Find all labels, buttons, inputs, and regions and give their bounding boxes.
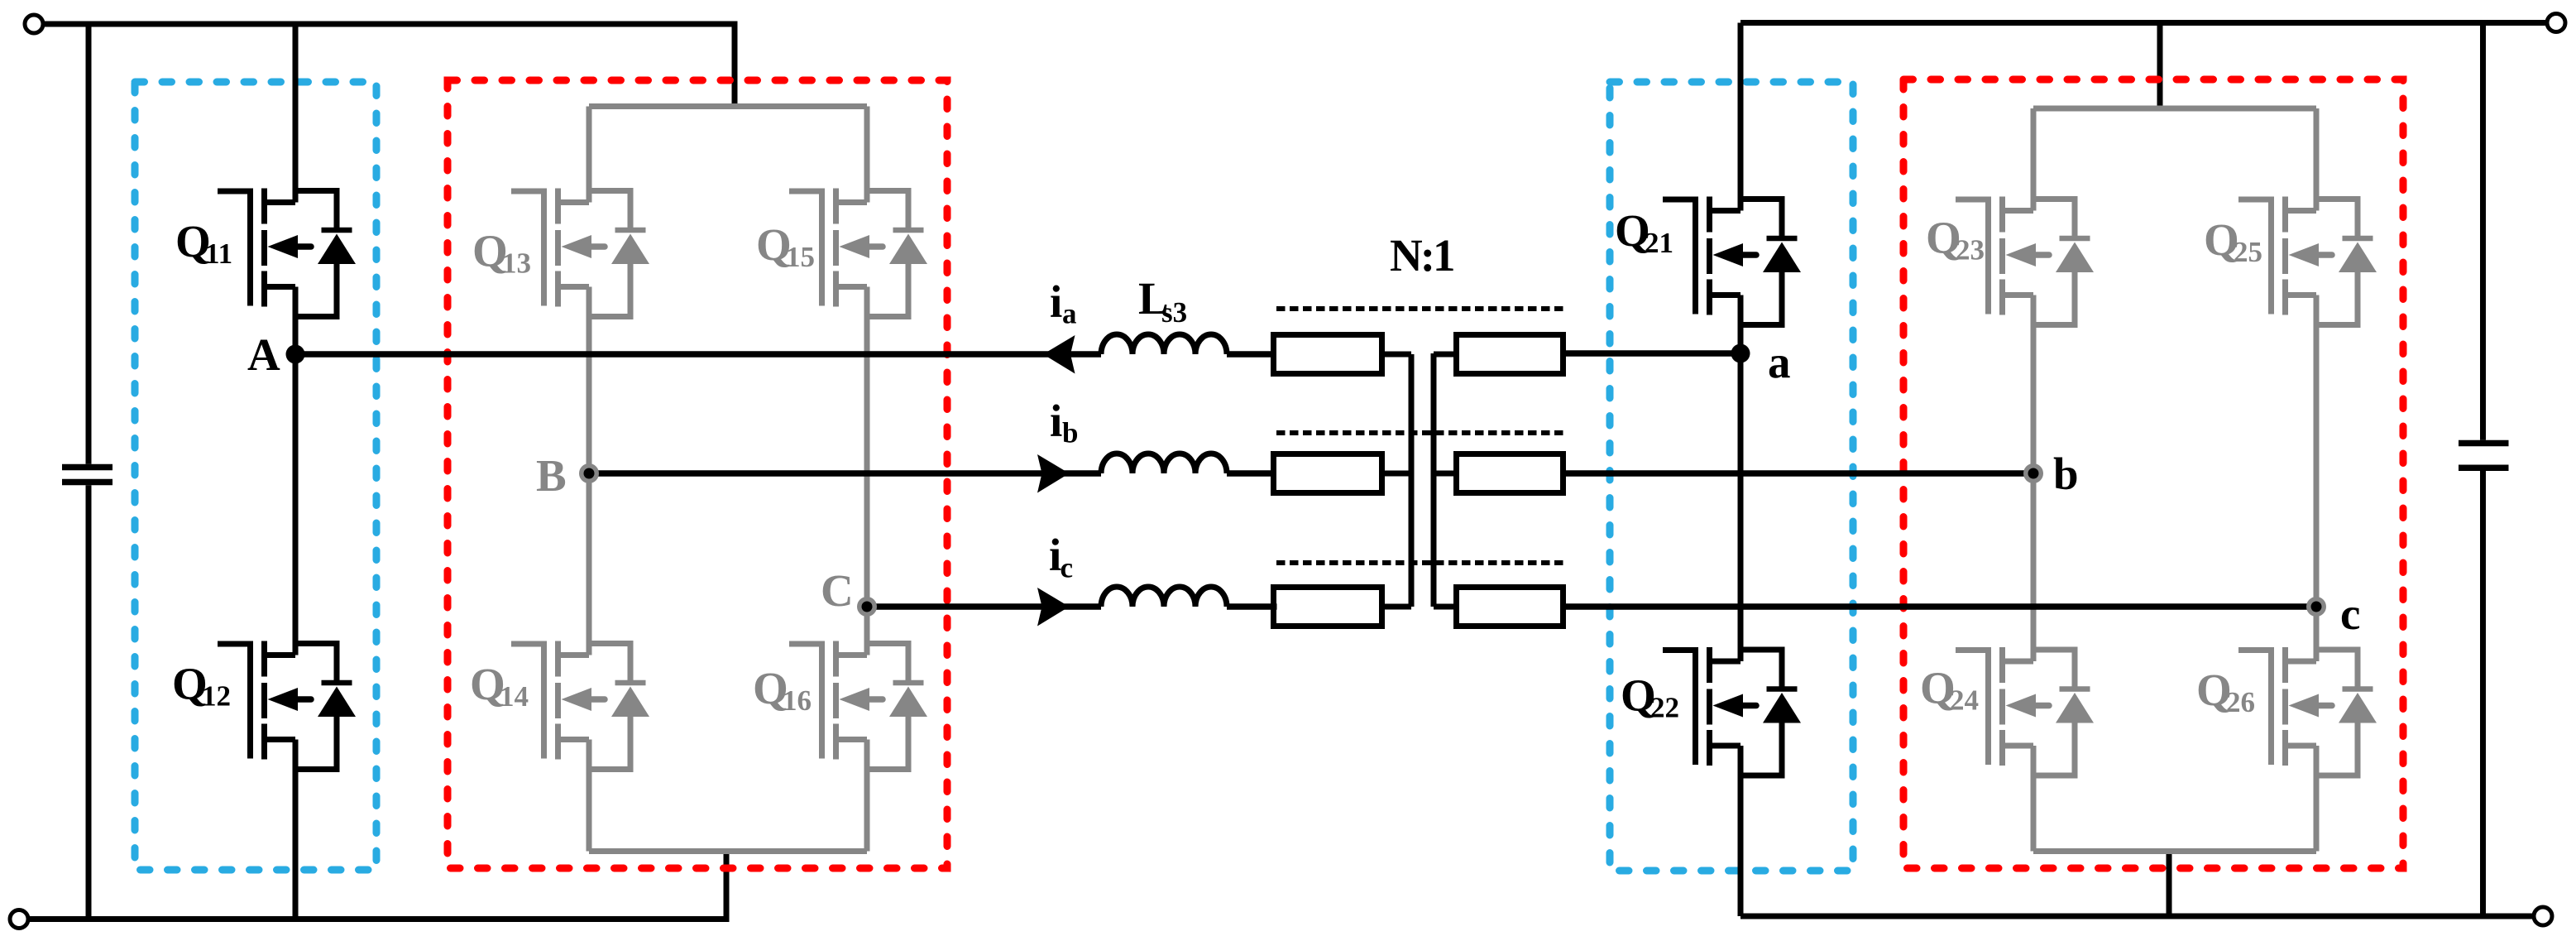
wire: Q14 source xyxy=(587,740,592,852)
svg-text:c: c xyxy=(1061,552,1074,584)
svg-text:23: 23 xyxy=(1956,234,1985,266)
transformer secondary winding (phase a) xyxy=(1457,335,1563,374)
svg-text:A: A xyxy=(247,329,280,380)
wire: secondary star bus to secondary winding c xyxy=(1434,604,1453,610)
terminal: top-right port circle xyxy=(2547,14,2565,32)
wire: right bridge gray-rail feed stub (top) xyxy=(2157,23,2163,109)
svg-text:12: 12 xyxy=(202,680,231,713)
svg-text:25: 25 xyxy=(2234,236,2262,268)
blue dashed box: right bridge leg 1 (Q21,Q22) xyxy=(1610,82,1853,871)
transformer primary winding (phase B) xyxy=(1274,454,1382,493)
wire: left DC rail lower (capacitor to bottom rail) xyxy=(86,485,92,919)
transistor Q11 (N-MOSFET with body diode) xyxy=(218,189,356,317)
svg-text:24: 24 xyxy=(1950,684,1979,717)
inductor (phase B) xyxy=(1101,454,1227,473)
svg-text:N:1: N:1 xyxy=(1390,230,1453,281)
wire: primary winding B to primary star bus xyxy=(1385,471,1411,477)
wire: left DC rail upper (to capacitor) xyxy=(86,24,92,464)
wire: right gray-bridge bottom stub to rail xyxy=(2167,852,2172,917)
wire: phase b line (secondary winding to node b) xyxy=(1566,470,2033,477)
wire: bottom rail right xyxy=(1740,914,2532,919)
svg-text:b: b xyxy=(1062,417,1078,449)
svg-text:s3: s3 xyxy=(1161,296,1187,329)
wire: Q24 drain from node b xyxy=(2031,473,2037,661)
wire: right DC rail lower (capacitor to bottom rail) xyxy=(2480,471,2486,916)
wire: right gray bridge bottom rail xyxy=(2033,848,2316,854)
inductor (phase C) xyxy=(1101,587,1227,607)
arrow: current ia (points left) xyxy=(1043,335,1075,374)
wire: Q25 drain xyxy=(2314,108,2320,211)
wire: top rail right xyxy=(1740,20,2545,26)
wire: phase c line (secondary winding to node c) xyxy=(1566,603,2316,610)
svg-text:26: 26 xyxy=(2226,686,2255,718)
inductor Ls3 (phase A) xyxy=(1101,334,1227,354)
blue dashed box: left bridge leg 1 (Q11,Q12) xyxy=(135,82,376,870)
transistor Q25 (N-MOSFET with body diode) xyxy=(2238,197,2377,325)
wire: left gray bridge bottom rail xyxy=(589,848,867,854)
wire: Q16 source xyxy=(864,740,870,852)
transistor Q14 (N-MOSFET with body diode) xyxy=(511,641,649,770)
wire: Q22 source to bottom rail xyxy=(1738,746,1744,916)
wire: primary winding C to primary star bus xyxy=(1385,604,1411,610)
wire: Q21 drain xyxy=(1738,23,1744,211)
wire: secondary star-point bus xyxy=(1431,353,1437,607)
wire: Q16 drain from node C xyxy=(864,607,870,655)
wire: Q14 drain from node B xyxy=(587,473,592,655)
wire: secondary star bus to secondary winding b xyxy=(1434,471,1453,477)
capacitor C2 bottom plate xyxy=(2459,465,2509,472)
capacitor C2 top plate xyxy=(2459,440,2509,447)
wire: Q13 source to node B xyxy=(587,287,592,474)
wire: Q12 drain from node A xyxy=(293,354,299,655)
wire: phase a line (secondary winding to node a) xyxy=(1566,350,1740,357)
node A junction dot xyxy=(286,345,305,364)
wire: bottom rail left xyxy=(30,852,726,919)
terminal: bottom-right port circle xyxy=(2534,907,2552,925)
svg-text:b: b xyxy=(2053,449,2079,499)
svg-text:C: C xyxy=(821,565,854,616)
wire: secondary star bus to secondary winding a xyxy=(1434,352,1453,358)
svg-text:13: 13 xyxy=(502,247,531,280)
wire: Q21 source to node a xyxy=(1738,295,1744,354)
transformer coupling dashed line (phase C) xyxy=(1276,560,1563,565)
svg-text:a: a xyxy=(1062,298,1077,330)
wire: right gray bridge top rail xyxy=(2033,106,2316,112)
capacitor C1 bottom plate xyxy=(62,479,113,486)
svg-text:22: 22 xyxy=(1650,692,1679,724)
transistor Q22 (N-MOSFET with body diode) xyxy=(1663,647,1801,775)
transformer coupling dashed line (phase B) xyxy=(1276,430,1563,435)
svg-text:a: a xyxy=(1768,337,1791,387)
wire: Q24 source xyxy=(2031,746,2037,852)
svg-text:21: 21 xyxy=(1645,227,1673,259)
node c junction dot xyxy=(2306,597,2326,617)
wire: right DC rail upper (to capacitor) xyxy=(2480,23,2486,440)
svg-text:i: i xyxy=(1050,396,1062,446)
wire: Q26 drain from node c xyxy=(2314,607,2320,661)
transistor Q21 (N-MOSFET with body diode) xyxy=(1663,197,1801,325)
wire: phase A line (node A to inductor) xyxy=(295,351,1101,358)
wire: Q15 source to node C xyxy=(864,287,870,607)
red dashed box: right bridge legs 2-3 (Q23..Q26) xyxy=(1903,79,2403,868)
wire: Q15 drain xyxy=(864,107,870,203)
wire: Q23 source to node b xyxy=(2031,295,2037,474)
wire: Q25 source to node c xyxy=(2314,295,2320,607)
red dashed box: left bridge legs 2-3 (Q13..Q16) xyxy=(448,80,947,868)
terminal: top-left port circle xyxy=(25,15,43,33)
transformer secondary winding (phase c) xyxy=(1457,588,1563,627)
wire: left gray bridge top rail xyxy=(589,103,867,109)
terminal: bottom-left port circle xyxy=(10,910,28,929)
svg-text:B: B xyxy=(536,450,567,501)
wire: Q26 source xyxy=(2314,746,2320,852)
wire: phase B line (node B to inductor) xyxy=(589,470,1101,477)
svg-text:15: 15 xyxy=(786,241,815,273)
transformer secondary winding (phase b) xyxy=(1457,454,1563,493)
wire: Q11 drain xyxy=(293,24,299,203)
wire: phase C line (node C to inductor) xyxy=(867,603,1101,610)
node a junction dot xyxy=(1731,344,1750,363)
svg-text:c: c xyxy=(2340,588,2360,639)
transistor Q12 (N-MOSFET with body diode) xyxy=(218,641,356,770)
svg-text:i: i xyxy=(1050,276,1062,327)
transistor Q15 (N-MOSFET with body diode) xyxy=(789,189,927,317)
node C junction dot xyxy=(857,597,877,617)
wire: phase C line (inductor to primary winding) xyxy=(1227,603,1277,610)
svg-text:11: 11 xyxy=(205,238,232,270)
wire: top rail left xyxy=(45,24,735,107)
transistor Q24 (N-MOSFET with body diode) xyxy=(1956,647,2094,775)
wire: phase B line (inductor to primary winding) xyxy=(1227,470,1276,477)
wire: phase A line (inductor to primary winding) xyxy=(1227,351,1274,358)
transistor Q16 (N-MOSFET with body diode) xyxy=(789,641,927,770)
node B junction dot xyxy=(579,463,599,483)
transistor Q23 (N-MOSFET with body diode) xyxy=(1956,197,2094,325)
transformer primary winding (phase A) xyxy=(1274,335,1382,374)
transformer primary winding (phase C) xyxy=(1274,588,1382,627)
svg-text:16: 16 xyxy=(783,684,812,717)
svg-text:14: 14 xyxy=(500,680,529,713)
transistor Q26 (N-MOSFET with body diode) xyxy=(2238,647,2377,775)
arrow: current ib (points right) xyxy=(1037,454,1070,493)
wire: Q22 drain from node a xyxy=(1738,353,1744,661)
wire: Q23 drain xyxy=(2031,108,2037,211)
transistor Q13 (N-MOSFET with body diode) xyxy=(511,189,649,317)
wire: Q13 drain xyxy=(587,107,592,203)
capacitor C1 top plate xyxy=(62,464,113,471)
transformer coupling dashed line (phase A) xyxy=(1276,306,1563,311)
wire: primary winding A to primary star bus xyxy=(1385,352,1411,358)
node b junction dot xyxy=(2023,463,2043,483)
arrow: current ic (points right) xyxy=(1037,588,1070,627)
wire: primary star-point bus xyxy=(1409,354,1415,607)
wire: Q11 source to node A xyxy=(293,287,299,355)
wire: Q12 source to bottom rail xyxy=(293,740,299,919)
